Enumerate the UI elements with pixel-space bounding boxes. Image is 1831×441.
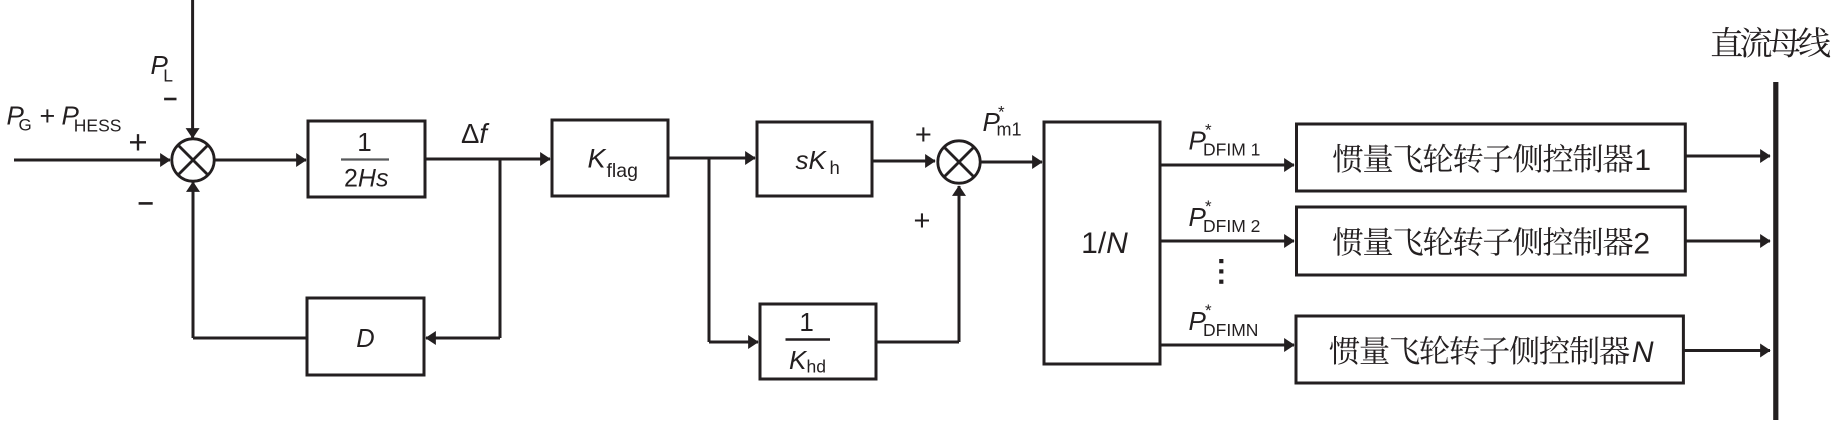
svg-text:D: D bbox=[356, 325, 374, 353]
svg-text:1/N: 1/N bbox=[1081, 227, 1128, 260]
svg-text:1: 1 bbox=[357, 127, 371, 157]
svg-text:DFIM 2: DFIM 2 bbox=[1203, 216, 1260, 236]
svg-text:Δf: Δf bbox=[461, 118, 490, 149]
svg-text:m1: m1 bbox=[997, 120, 1022, 140]
svg-text:G: G bbox=[19, 116, 32, 135]
svg-text:+: + bbox=[40, 101, 56, 131]
svg-text:*: * bbox=[1205, 121, 1212, 140]
svg-text:h: h bbox=[830, 157, 840, 178]
svg-text:HESS: HESS bbox=[74, 115, 122, 135]
svg-text:+: + bbox=[128, 124, 147, 161]
svg-text:*: * bbox=[1205, 197, 1212, 216]
svg-text:2: 2 bbox=[1633, 227, 1650, 260]
svg-text:1: 1 bbox=[799, 307, 813, 337]
svg-text:+: + bbox=[915, 119, 932, 151]
svg-text:K: K bbox=[588, 143, 607, 173]
svg-text:1: 1 bbox=[1634, 144, 1651, 177]
svg-text:+: + bbox=[914, 205, 931, 237]
svg-text:2Hs: 2Hs bbox=[344, 165, 388, 193]
svg-text:hd: hd bbox=[807, 357, 826, 377]
svg-text:DFIMN: DFIMN bbox=[1203, 320, 1258, 340]
svg-text:flag: flag bbox=[607, 160, 638, 182]
svg-text:*: * bbox=[1205, 301, 1212, 320]
svg-text:sK: sK bbox=[796, 145, 828, 175]
svg-text:L: L bbox=[163, 66, 173, 86]
svg-text:DFIM 1: DFIM 1 bbox=[1203, 139, 1260, 159]
svg-text:K: K bbox=[789, 345, 808, 375]
svg-text:N: N bbox=[1632, 336, 1654, 369]
